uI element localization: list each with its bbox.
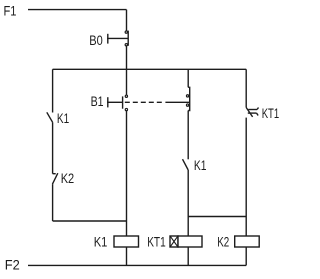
- svg-text:F2: F2: [5, 257, 20, 273]
- wire B1 linked contact to contact K1 (middle): [187, 111, 189, 160]
- svg-text:B0: B0: [89, 33, 103, 49]
- rail F1: [28, 9, 127, 11]
- wire contact KT1 to coil K2: [245, 118, 247, 236]
- wire bus down to B1 linked contact: [187, 69, 189, 87]
- wire left bottom connector: [53, 220, 127, 222]
- bus node wire (junction below B0): [53, 68, 247, 70]
- contact K1 (NO auxiliary contact, middle branch): [183, 159, 189, 170]
- wire bus down to contact KT1: [245, 69, 247, 107]
- coil K2: [235, 236, 260, 247]
- mechanical link (dashed) between B1 contacts: [125, 101, 190, 103]
- svg-text:KT1: KT1: [262, 106, 280, 122]
- svg-text:F1: F1: [4, 4, 17, 20]
- contact KT1 (NC timed contact): [246, 108, 258, 117]
- svg-text:B1: B1: [91, 94, 104, 110]
- svg-text:K1: K1: [194, 158, 207, 174]
- svg-text:K1: K1: [57, 111, 69, 127]
- svg-text:K2: K2: [61, 171, 75, 187]
- contact B1 (NC linked contact, middle branch): [186, 87, 189, 110]
- wire coil KT1 to F2 rail: [187, 247, 189, 265]
- svg-text:KT1: KT1: [147, 234, 166, 250]
- svg-text:K1: K1: [94, 234, 108, 250]
- wire K2 to left bottom connector: [52, 184, 54, 221]
- wire bus down to contact K1 (left latching branch): [52, 69, 54, 112]
- wire contact K1 to coil KT1: [187, 170, 189, 236]
- wire coil K2 to F2 rail: [245, 247, 247, 265]
- wire bus down to B1: [126, 69, 128, 95]
- contact K2 (NC auxiliary contact): [52, 173, 57, 184]
- contact K1 (NO auxiliary contact, left branch): [47, 112, 53, 122]
- wire coil K1 to F2 rail: [126, 247, 128, 265]
- svg-text:K2: K2: [217, 234, 229, 250]
- wire F1 rail down to B0: [126, 10, 128, 31]
- coil K1: [114, 236, 139, 247]
- wire right connector (KT1 branch to K2 branch): [188, 216, 246, 218]
- pushbutton B1 (NO start button): [107, 95, 127, 111]
- pushbutton B0 (NC stop button): [107, 31, 128, 46]
- wire B0 to bus node: [126, 46, 128, 69]
- wire B1 to coil K1: [126, 111, 128, 236]
- coil KT1 (timer coil with X box): [170, 236, 202, 247]
- wire K1 to K2: [52, 122, 54, 173]
- rail F2: [28, 264, 246, 266]
